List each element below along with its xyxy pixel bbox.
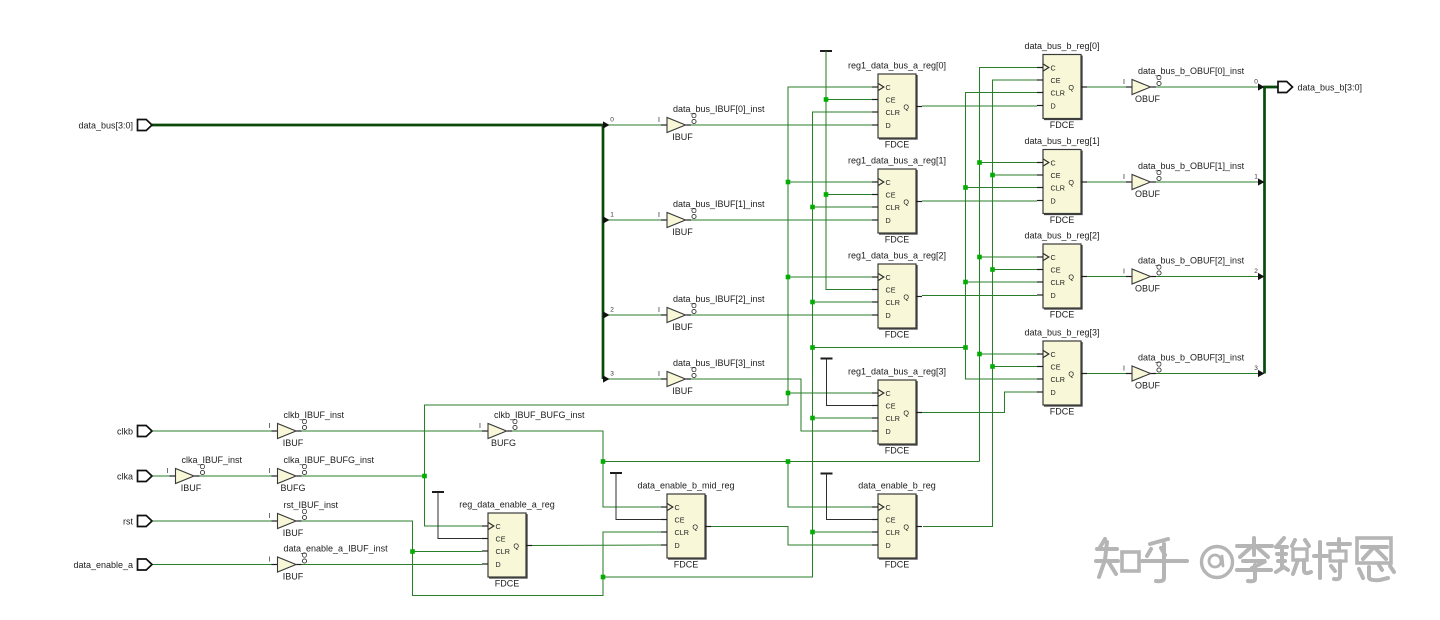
junction clkb data_bus_b_reg[3] C xyxy=(977,352,982,357)
wire data_enable_b to data_bus_b_reg[2] CE xyxy=(993,269,1038,271)
svg-text:CE: CE xyxy=(496,534,506,543)
svg-text:O: O xyxy=(691,303,697,310)
svg-text:CLR: CLR xyxy=(496,547,510,556)
junction clka at BUFG output xyxy=(422,474,427,479)
wire reg1[3] Q to data_bus_b_reg[3] D xyxy=(922,392,1037,413)
wire rst to data_enable_b_reg CLR xyxy=(813,531,873,533)
svg-text:FDCE: FDCE xyxy=(885,235,910,245)
svg-text:Q: Q xyxy=(903,522,909,531)
svg-text:Q: Q xyxy=(903,102,909,111)
junction rst reg1[3] CLR xyxy=(810,416,815,421)
wire reg1[1] Q to data_bus_b_reg[1] D xyxy=(922,200,1037,202)
svg-text:FDCE: FDCE xyxy=(885,140,910,150)
svg-text:BUFG: BUFG xyxy=(280,483,305,493)
wire rst to data_bus_b_reg[2] CLR xyxy=(966,281,1038,283)
svg-text:data_bus_IBUF[1]_inst: data_bus_IBUF[1]_inst xyxy=(673,199,765,209)
svg-text:I: I xyxy=(269,423,271,430)
wire data_enable_a port to IBUF xyxy=(152,564,272,566)
svg-text:IBUF: IBUF xyxy=(672,386,693,396)
svg-text:FDCE: FDCE xyxy=(1050,310,1075,320)
wire data_bus_b_reg[0] Q to OBUF xyxy=(1087,86,1126,88)
svg-text:O: O xyxy=(1156,362,1162,369)
svg-text:D: D xyxy=(675,541,680,550)
input port data_bus[3:0] xyxy=(78,120,152,131)
wire reg_data_enable_a_reg Q to mid_reg D xyxy=(532,544,661,547)
wire clka IBUF to BUFG xyxy=(200,475,272,477)
arrowhead data_bus_b[0] xyxy=(1258,83,1265,90)
svg-text:clkb_IBUF_BUFG_inst: clkb_IBUF_BUFG_inst xyxy=(494,410,585,420)
svg-text:I: I xyxy=(269,468,271,475)
svg-text:I: I xyxy=(269,513,271,520)
wire data_enable_b to data_bus_b_reg[1] CE xyxy=(993,174,1038,176)
junction clka reg1[3] C xyxy=(786,391,791,396)
wire rst IBUF run to mid_reg CLR xyxy=(291,521,661,596)
svg-text:O: O xyxy=(302,419,308,426)
junction enable data_bus_b_reg[1] CE xyxy=(990,173,995,178)
buffer data_bus_b_OBUF[3]_inst (OBUF) xyxy=(1123,353,1245,391)
svg-text:CE: CE xyxy=(1051,362,1061,371)
wire data_bus_b_OBUF[3] output xyxy=(1156,373,1259,375)
buffer clka_IBUF_BUFG_inst (BUFG) xyxy=(269,455,375,493)
svg-text:I: I xyxy=(1123,269,1125,276)
buffer clkb_IBUF_BUFG_inst (BUFG) xyxy=(479,410,585,448)
junction rst data_bus_b_reg[1] CLR xyxy=(963,185,968,190)
buffer rst_IBUF_inst (IBUF) xyxy=(269,500,339,538)
svg-text:data_bus_b[3:0]: data_bus_b[3:0] xyxy=(1298,83,1363,93)
junction const1 reg1[1] CE xyxy=(824,192,829,197)
svg-text:CLR: CLR xyxy=(886,528,900,537)
svg-text:C: C xyxy=(1051,63,1056,72)
wire data_bus[0] branch xyxy=(608,124,661,126)
svg-text:C: C xyxy=(496,522,501,531)
wire clkb to data_enable_b_reg C xyxy=(788,462,872,508)
svg-text:3: 3 xyxy=(1254,365,1258,372)
buffer data_enable_a_IBUF_inst (IBUF) xyxy=(269,544,389,582)
svg-text:clka: clka xyxy=(117,472,133,482)
const1 tie reg1[3] CE xyxy=(821,359,873,406)
junction rst branch xyxy=(601,575,606,580)
svg-text:O: O xyxy=(691,208,697,215)
svg-text:data_enable_b_mid_reg: data_enable_b_mid_reg xyxy=(637,481,734,491)
flip-flop data_bus_b_reg[3] (FDCE) xyxy=(1024,328,1099,417)
svg-text:Q: Q xyxy=(1068,272,1074,281)
svg-text:BUFG: BUFG xyxy=(491,438,516,448)
wire bus data_bus_b[3:0] xyxy=(1265,87,1279,374)
wire rst to reg1[2] CLR xyxy=(813,301,873,303)
svg-text:C: C xyxy=(886,178,891,187)
svg-text:D: D xyxy=(886,311,891,320)
svg-text:OBUF: OBUF xyxy=(1135,381,1161,391)
svg-text:CE: CE xyxy=(886,190,896,199)
svg-text:CE: CE xyxy=(886,285,896,294)
flip-flop data_bus_b_reg[1] (FDCE) xyxy=(1024,136,1099,225)
buffer data_bus_IBUF[3]_inst (IBUF) xyxy=(658,358,765,396)
svg-text:I: I xyxy=(269,557,271,564)
svg-text:D: D xyxy=(886,541,891,550)
flip-flop reg_data_enable_a_reg (FDCE) xyxy=(459,500,555,589)
svg-text:D: D xyxy=(1051,101,1056,110)
svg-text:I: I xyxy=(167,468,169,475)
flip-flop data_bus_b_reg[2] (FDCE) xyxy=(1024,231,1099,320)
flip-flop reg1_data_bus_a_reg[1] (FDCE) xyxy=(848,156,946,245)
svg-text:O: O xyxy=(200,464,206,471)
svg-text:D: D xyxy=(1051,291,1056,300)
svg-text:data_bus_b_reg[2]: data_bus_b_reg[2] xyxy=(1024,231,1099,241)
svg-text:reg1_data_bus_a_reg[3]: reg1_data_bus_a_reg[3] xyxy=(848,367,946,377)
buffer data_bus_b_OBUF[0]_inst (OBUF) xyxy=(1123,66,1245,104)
flip-flop data_enable_b_reg (FDCE) xyxy=(858,481,936,570)
wire data_enable_b to data_bus_b_reg[3] CE xyxy=(993,366,1038,368)
flip-flop data_enable_b_mid_reg (FDCE) xyxy=(637,481,734,570)
svg-text:CLR: CLR xyxy=(1051,278,1065,287)
input port clka xyxy=(117,471,152,482)
svg-text:O: O xyxy=(1156,265,1162,272)
wire data_enable_b to CE trunk xyxy=(923,80,1037,527)
const1 tie for reg1 CE column xyxy=(820,50,832,52)
svg-text:OBUF: OBUF xyxy=(1135,189,1161,199)
svg-text:CLR: CLR xyxy=(675,528,689,537)
wire clka to reg1[3] C xyxy=(788,392,872,394)
svg-text:I: I xyxy=(658,371,660,378)
svg-text:FDCE: FDCE xyxy=(885,446,910,456)
const1 tie data_enable_b_mid_reg CE xyxy=(610,473,661,520)
wire bus data_bus[3:0] xyxy=(152,125,604,379)
junction clka reg1[1] C xyxy=(786,180,791,185)
svg-text:2: 2 xyxy=(610,307,614,314)
wire reg1[2] Q to data_bus_b_reg[2] D xyxy=(922,295,1037,297)
wire rst trunk b column down xyxy=(966,348,1038,380)
svg-text:reg1_data_bus_a_reg[2]: reg1_data_bus_a_reg[2] xyxy=(848,251,946,261)
buffer clka_IBUF_inst (IBUF) xyxy=(167,455,243,493)
flip-flop data_bus_b_reg[0] (FDCE) xyxy=(1024,41,1099,130)
svg-text:0: 0 xyxy=(1254,79,1258,86)
const1 tie reg_data_enable_a_reg CE xyxy=(432,492,482,539)
svg-text:O: O xyxy=(691,113,697,120)
wire data_bus_b_reg[3] Q to OBUF xyxy=(1087,373,1126,375)
svg-text:D: D xyxy=(886,121,891,130)
svg-text:reg1_data_bus_a_reg[1]: reg1_data_bus_a_reg[1] xyxy=(848,156,946,166)
svg-text:data_bus_b_reg[1]: data_bus_b_reg[1] xyxy=(1024,136,1099,146)
svg-text:D: D xyxy=(886,427,891,436)
svg-text:CLR: CLR xyxy=(1051,375,1065,384)
wire clkb port to IBUF xyxy=(152,430,272,432)
svg-text:clkb: clkb xyxy=(117,427,133,437)
junction enable data_bus_b_reg[3] CE xyxy=(990,364,995,369)
junction rst reg1[2] CLR xyxy=(810,300,815,305)
svg-text:3: 3 xyxy=(610,371,614,378)
wire data_bus_b_OBUF[2] output xyxy=(1156,276,1259,278)
junction clkb data_bus_b_reg[1] C xyxy=(977,160,982,165)
svg-text:CLR: CLR xyxy=(1051,183,1065,192)
svg-text:I: I xyxy=(1123,79,1125,86)
wire clkb to data_bus_b_reg[1] C xyxy=(980,162,1038,164)
svg-text:data_bus[3:0]: data_bus[3:0] xyxy=(78,121,133,131)
svg-text:data_bus_IBUF[2]_inst: data_bus_IBUF[2]_inst xyxy=(673,294,765,304)
svg-text:O: O xyxy=(302,553,308,560)
wire clka to reg_data_enable_a_reg C xyxy=(425,476,483,526)
junction clkb data_bus_b_reg[2] C xyxy=(977,255,982,260)
svg-text:FDCE: FDCE xyxy=(885,560,910,570)
svg-text:C: C xyxy=(1051,253,1056,262)
svg-text:I: I xyxy=(1123,174,1125,181)
wire clka to reg1[1] C xyxy=(788,181,872,183)
svg-text:C: C xyxy=(886,389,891,398)
svg-text:O: O xyxy=(302,464,308,471)
wire data_bus_b_OBUF[0] output xyxy=(1156,86,1259,88)
arrowhead data_bus[1] xyxy=(603,216,610,223)
wire data_bus_b_reg[1] Q to OBUF xyxy=(1087,181,1126,183)
arrowhead data_bus_b[2] xyxy=(1258,273,1265,280)
wire reg1[0] Q to data_bus_b_reg[0] D xyxy=(922,105,1037,107)
svg-text:CLR: CLR xyxy=(886,414,900,423)
wire clkb to data_bus_b_reg[2] C xyxy=(980,256,1038,258)
wire rst to data_bus_b_reg[1] CLR xyxy=(966,187,1038,189)
svg-text:IBUF: IBUF xyxy=(283,438,304,448)
junction enable data_bus_b_reg[2] CE xyxy=(990,267,995,272)
buffer data_bus_IBUF[2]_inst (IBUF) xyxy=(658,294,765,332)
junction rst reg1[1] CLR xyxy=(810,205,815,210)
arrowhead data_bus_b[1] xyxy=(1258,178,1265,185)
buffer data_bus_IBUF[0]_inst (IBUF) xyxy=(658,104,765,142)
svg-text:data_bus_b_reg[3]: data_bus_b_reg[3] xyxy=(1024,328,1099,338)
svg-text:CLR: CLR xyxy=(886,298,900,307)
svg-text:data_enable_a_IBUF_inst: data_enable_a_IBUF_inst xyxy=(284,544,389,554)
wire rst to reg1[3] CLR xyxy=(813,417,873,419)
wire data_bus_IBUF[3] to reg1 D xyxy=(691,379,872,431)
svg-text:data_enable_b_reg: data_enable_b_reg xyxy=(858,481,936,491)
svg-text:Q: Q xyxy=(1068,83,1074,92)
svg-text:CE: CE xyxy=(1051,265,1061,274)
wire data_bus_b_reg[2] Q to OBUF xyxy=(1087,276,1126,278)
wire data_bus[2] branch xyxy=(608,314,661,316)
wire clka BUFG output xyxy=(298,475,425,477)
flip-flop reg1_data_bus_a_reg[3] (FDCE) xyxy=(848,367,946,456)
svg-text:I: I xyxy=(479,423,481,430)
wire data_bus_b_OBUF[1] output xyxy=(1156,181,1259,183)
svg-text:CE: CE xyxy=(675,515,685,524)
wire const1 to reg1[1] CE xyxy=(826,194,872,196)
wire clkb to data_enable_b_mid_reg C xyxy=(603,462,661,508)
wire rst trunk up xyxy=(603,112,872,577)
junction const1 reg1[0] CE xyxy=(824,97,829,102)
wire rst port to IBUF xyxy=(152,520,272,522)
svg-text:data_bus_b_OBUF[2]_inst: data_bus_b_OBUF[2]_inst xyxy=(1138,256,1245,266)
svg-text:FDCE: FDCE xyxy=(885,330,910,340)
const1 tie data_enable_b_reg CE xyxy=(821,474,873,520)
junction clkb data_enable_b_reg C xyxy=(786,459,791,464)
svg-text:D: D xyxy=(496,560,501,569)
wire data_bus_IBUF[0] to reg1 D xyxy=(691,124,872,126)
svg-text:data_bus_IBUF[0]_inst: data_bus_IBUF[0]_inst xyxy=(673,104,765,114)
junction clka reg1[2] C xyxy=(786,275,791,280)
wire rst to reg_data_enable_a_reg CLR xyxy=(413,551,483,553)
svg-text:CE: CE xyxy=(1051,171,1061,180)
arrowhead data_bus[3] xyxy=(603,375,610,382)
svg-text:C: C xyxy=(1051,350,1056,359)
svg-text:IBUF: IBUF xyxy=(672,227,693,237)
svg-text:IBUF: IBUF xyxy=(672,322,693,332)
svg-text:O: O xyxy=(691,367,697,374)
svg-text:I: I xyxy=(658,212,660,219)
svg-text:I: I xyxy=(658,307,660,314)
svg-text:FDCE: FDCE xyxy=(674,560,699,570)
svg-text:0: 0 xyxy=(610,117,614,124)
svg-text:1: 1 xyxy=(610,212,614,219)
svg-text:2: 2 xyxy=(1254,268,1258,275)
svg-text:C: C xyxy=(886,503,891,512)
buffer data_bus_b_OBUF[1]_inst (OBUF) xyxy=(1123,161,1245,199)
svg-text:O: O xyxy=(1156,170,1162,177)
junction rst data_bus_b_reg[2] CLR xyxy=(963,280,968,285)
svg-text:Q: Q xyxy=(903,197,909,206)
wire rst cross link xyxy=(813,347,966,349)
svg-text:Q: Q xyxy=(1068,178,1074,187)
svg-text:FDCE: FDCE xyxy=(1050,407,1075,417)
svg-text:CE: CE xyxy=(886,401,896,410)
wire mid_reg Q to data_enable_b_reg D xyxy=(711,527,872,546)
svg-text:Q: Q xyxy=(903,408,909,417)
arrowhead data_bus[2] xyxy=(603,311,610,318)
svg-text:rst: rst xyxy=(123,517,133,527)
svg-text:1: 1 xyxy=(1254,174,1258,181)
svg-text:clka_IBUF_BUFG_inst: clka_IBUF_BUFG_inst xyxy=(284,455,375,465)
svg-text:reg_data_enable_a_reg: reg_data_enable_a_reg xyxy=(459,500,555,510)
svg-text:I: I xyxy=(1123,366,1125,373)
svg-text:FDCE: FDCE xyxy=(495,579,520,589)
wire const1 trunk xyxy=(826,51,872,290)
svg-text:IBUF: IBUF xyxy=(283,528,304,538)
svg-text:CLR: CLR xyxy=(886,203,900,212)
svg-text:CLR: CLR xyxy=(1051,88,1065,97)
svg-text:clka_IBUF_inst: clka_IBUF_inst xyxy=(182,455,243,465)
svg-text:rst_IBUF_inst: rst_IBUF_inst xyxy=(284,500,339,510)
svg-text:data_bus_b_reg[0]: data_bus_b_reg[0] xyxy=(1024,41,1099,51)
svg-text:OBUF: OBUF xyxy=(1135,94,1161,104)
svg-text:reg1_data_bus_a_reg[0]: reg1_data_bus_a_reg[0] xyxy=(848,61,946,71)
buffer data_bus_IBUF[1]_inst (IBUF) xyxy=(658,199,765,237)
svg-text:FDCE: FDCE xyxy=(1050,215,1075,225)
svg-text:IBUF: IBUF xyxy=(672,132,693,142)
input port data_enable_a xyxy=(73,559,152,570)
svg-text:Q: Q xyxy=(513,541,519,550)
svg-text:IBUF: IBUF xyxy=(283,572,304,582)
wire rst trunk b column up xyxy=(966,93,1038,348)
svg-text:O: O xyxy=(512,419,518,426)
junction rst data_enable_b_reg CLR xyxy=(810,530,815,535)
junction rst reg_data_enable_a_reg CLR xyxy=(410,549,415,554)
buffer clkb_IBUF_inst (IBUF) xyxy=(269,410,345,448)
svg-text:C: C xyxy=(886,83,891,92)
wire data_bus_IBUF[1] to reg1 D xyxy=(691,219,872,221)
wire data_bus_IBUF[2] to reg1 D xyxy=(691,314,872,316)
arrowhead data_bus_b[3] xyxy=(1258,370,1265,377)
svg-text:CE: CE xyxy=(886,515,896,524)
svg-text:Q: Q xyxy=(1068,369,1074,378)
svg-text:data_bus_b_OBUF[1]_inst: data_bus_b_OBUF[1]_inst xyxy=(1138,161,1245,171)
wire clka to reg1[2] C xyxy=(788,276,872,278)
svg-text:C: C xyxy=(886,273,891,282)
wire clkb IBUF to BUFG xyxy=(291,430,482,432)
arrowhead data_bus[0] xyxy=(603,121,610,128)
flip-flop reg1_data_bus_a_reg[2] (FDCE) xyxy=(848,251,946,340)
svg-text:CLR: CLR xyxy=(886,108,900,117)
wire rst to reg1[1] CLR xyxy=(813,206,873,208)
svg-text:O: O xyxy=(302,509,308,516)
svg-text:C: C xyxy=(1051,158,1056,167)
input port clkb xyxy=(117,426,152,437)
junction rst cross link left xyxy=(810,345,815,350)
svg-text:clkb_IBUF_inst: clkb_IBUF_inst xyxy=(284,410,345,420)
buffer data_bus_b_OBUF[2]_inst (OBUF) xyxy=(1123,256,1245,294)
wire clkb to data_bus_b_reg[3] C xyxy=(980,353,1038,355)
wire data_enable_a IBUF to reg D xyxy=(291,564,482,566)
svg-text:I: I xyxy=(658,117,660,124)
svg-text:IBUF: IBUF xyxy=(181,483,202,493)
wire data_bus[1] branch xyxy=(608,219,661,221)
wire const1 to reg1[0] CE xyxy=(826,99,872,101)
wire data_bus[3] branch xyxy=(608,378,661,380)
flip-flop reg1_data_bus_a_reg[0] (FDCE) xyxy=(848,61,946,150)
input port rst xyxy=(123,516,152,527)
junction clkb main xyxy=(601,459,606,464)
wire clkb BUFG output run xyxy=(512,431,980,462)
svg-text:data_bus_b_OBUF[0]_inst: data_bus_b_OBUF[0]_inst xyxy=(1138,66,1245,76)
svg-text:CE: CE xyxy=(886,95,896,104)
wire clka port to IBUF xyxy=(152,475,170,477)
svg-text:D: D xyxy=(1051,388,1056,397)
watermark 知乎 @李锐博恩 xyxy=(1096,538,1394,581)
svg-text:D: D xyxy=(886,216,891,225)
svg-text:D: D xyxy=(1051,196,1056,205)
svg-text:data_bus_b_OBUF[3]_inst: data_bus_b_OBUF[3]_inst xyxy=(1138,353,1245,363)
svg-text:data_enable_a: data_enable_a xyxy=(73,560,133,570)
svg-text:data_bus_IBUF[3]_inst: data_bus_IBUF[3]_inst xyxy=(673,358,765,368)
svg-text:FDCE: FDCE xyxy=(1050,120,1075,130)
wire clkb trunk to data_bus_b_reg column xyxy=(980,68,1038,462)
svg-text:OBUF: OBUF xyxy=(1135,284,1161,294)
junction rst cross link right xyxy=(963,345,968,350)
svg-text:Q: Q xyxy=(692,522,698,531)
svg-text:O: O xyxy=(1156,75,1162,82)
svg-text:CE: CE xyxy=(1051,76,1061,85)
svg-text:C: C xyxy=(675,503,680,512)
wire clka trunk xyxy=(425,87,873,476)
svg-text:Q: Q xyxy=(903,292,909,301)
output port data_bus_b[3:0] xyxy=(1278,82,1362,93)
